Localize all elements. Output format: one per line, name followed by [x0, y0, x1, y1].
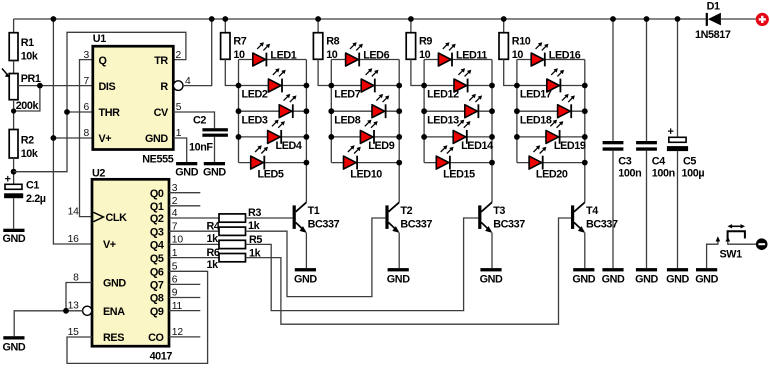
svg-text:GND: GND [387, 273, 410, 285]
svg-text:4017: 4017 [150, 350, 173, 362]
svg-text:Q7: Q7 [150, 280, 164, 292]
svg-text:R6: R6 [207, 247, 220, 259]
wire LED row 1 group 2 [331, 59, 399, 61]
wire Q2 to R3 [169, 217, 219, 219]
capacitor C1 [4, 174, 46, 229]
node left rail junction row 4 g3 [421, 134, 427, 140]
svg-text:200k: 200k [16, 100, 40, 112]
wire U2 GND pin 8 down [66, 283, 92, 311]
resistor R5 [219, 240, 246, 248]
svg-text:LED12: LED12 [427, 89, 459, 101]
wire right ladder rail group 1 [305, 60, 307, 203]
svg-text:C2: C2 [193, 114, 206, 126]
svg-text:V+: V+ [103, 239, 116, 251]
wire C5 to ground [677, 151, 679, 268]
wire Q output to CLK [80, 60, 93, 217]
led LED3 [242, 94, 297, 127]
wire PR1 to R2 [13, 100, 15, 130]
svg-text:8: 8 [83, 128, 89, 139]
svg-text:CV: CV [154, 107, 169, 119]
svg-text:PR1: PR1 [21, 73, 41, 85]
svg-text:BC337: BC337 [400, 219, 432, 231]
svg-text:BC337: BC337 [308, 219, 340, 231]
wire LED row 1 group 4 [517, 59, 585, 61]
svg-text:2.2µ: 2.2µ [26, 193, 46, 205]
svg-text:GND: GND [103, 278, 126, 290]
led LED4 [268, 120, 302, 153]
svg-text:10nF: 10nF [189, 141, 213, 153]
wire left ladder rail group 3 [423, 60, 425, 163]
wire left ladder rail group 1 [238, 60, 240, 163]
node right rail junction row 2 g3 [489, 83, 495, 89]
wire LED row 5 group 2 [331, 162, 399, 164]
svg-text:16: 16 [68, 234, 80, 245]
resistor R9 [406, 33, 415, 60]
node left rail junction row 4 g1 [236, 134, 242, 140]
svg-text:ENA: ENA [103, 306, 125, 318]
wire R4 to T2 base [246, 218, 386, 297]
svg-text:R9: R9 [419, 35, 432, 47]
wire TR loop to timing node [14, 32, 186, 171]
svg-text:Q2: Q2 [150, 213, 164, 225]
ground GND under SW1 [695, 268, 718, 285]
wire U1 GND pin to ground [173, 138, 186, 162]
svg-text:10k: 10k [21, 148, 39, 160]
IC U1 NE555 timer [83, 33, 191, 165]
svg-text:GND: GND [480, 273, 503, 285]
wire Q5 to R6 [169, 257, 219, 259]
node right rail junction row 2 g2 [396, 83, 402, 89]
wire R5 to T3 base [246, 218, 479, 311]
svg-text:1k: 1k [248, 220, 261, 232]
led LED14 [453, 120, 493, 153]
svg-text:RES: RES [103, 332, 124, 344]
U2 enable bubble pin 13 [83, 306, 92, 315]
svg-text:NE555: NE555 [142, 153, 173, 165]
svg-text:V+: V+ [99, 133, 112, 145]
svg-text:LED20: LED20 [536, 169, 568, 181]
node rail junction R8 [315, 16, 321, 22]
resistor R7 [221, 33, 230, 60]
node right rail junction row 3 g1 [304, 108, 310, 114]
led LED11 [438, 42, 487, 66]
svg-text:8: 8 [73, 272, 79, 283]
node left rail junction row 2 g3 [421, 83, 427, 89]
svg-text:GND: GND [3, 342, 26, 354]
svg-text:3: 3 [83, 50, 89, 61]
svg-text:LED13: LED13 [427, 114, 459, 126]
svg-text:LED18: LED18 [520, 114, 552, 126]
svg-text:LED16: LED16 [549, 50, 581, 62]
resistor R10 [499, 33, 508, 60]
svg-text:LED19: LED19 [554, 140, 586, 152]
led LED2 [242, 68, 286, 101]
svg-text:LED6: LED6 [363, 50, 389, 62]
svg-text:7: 7 [83, 76, 89, 87]
node right rail junction row 3 g3 [489, 108, 495, 114]
node rail junction R10 [501, 16, 507, 22]
svg-text:LED7: LED7 [334, 89, 360, 101]
led LED10 [344, 145, 383, 180]
svg-text:R3: R3 [248, 207, 261, 219]
wire LED row 2 group 1 [239, 85, 307, 87]
resistor R6 [219, 254, 246, 262]
svg-text:GND: GND [294, 273, 317, 285]
svg-text:R2: R2 [21, 135, 34, 147]
wire Q4 to R5 [169, 243, 219, 245]
wire T1 emitter to ground [305, 233, 307, 269]
svg-text:C5: C5 [683, 155, 696, 167]
wire LED row 3 group 4 [517, 110, 585, 112]
svg-text:100µ: 100µ [682, 167, 705, 179]
svg-text:T3: T3 [493, 205, 505, 217]
svg-text:6: 6 [83, 102, 89, 113]
wire R2 to C1 [13, 158, 15, 184]
wire LED row 3 group 1 [239, 110, 307, 112]
svg-text:13: 13 [68, 301, 80, 312]
wire Q1 stub [169, 205, 200, 207]
wire R6 to T4 base [246, 218, 572, 324]
node left rail junction row 3 g3 [421, 108, 427, 114]
node rail junction R7 [222, 16, 228, 22]
svg-text:Q1: Q1 [150, 201, 164, 213]
node left rail junction row 2 g2 [328, 83, 334, 89]
resistor R3 [219, 214, 246, 222]
svg-text:LED4: LED4 [276, 140, 302, 152]
svg-text:BC337: BC337 [493, 219, 525, 231]
svg-text:LED1: LED1 [270, 50, 296, 62]
node right rail junction row 4 g2 [396, 134, 402, 140]
svg-text:SW1: SW1 [720, 248, 743, 260]
wire right ladder rail group 2 [398, 60, 400, 203]
wire rail to R1 [13, 19, 15, 33]
wire LED row 1 group 3 [424, 59, 492, 61]
svg-text:GND: GND [203, 167, 226, 179]
wire rail to C5 [677, 19, 679, 137]
svg-text:10k: 10k [21, 51, 39, 63]
wire LED row 5 group 1 [239, 162, 307, 164]
svg-text:+: + [668, 126, 674, 138]
wire LED row 3 group 3 [424, 110, 492, 112]
node right rail junction row 5 g4 [582, 160, 588, 166]
wire left ladder rail group 2 [330, 60, 332, 163]
node rail junction V+ [51, 16, 57, 22]
svg-text:T1: T1 [308, 205, 320, 217]
svg-text:Q4: Q4 [150, 240, 164, 252]
wire LED row 4 group 2 [331, 136, 399, 138]
wire LED row 2 group 2 [331, 85, 399, 87]
ground GND at T2 emitter [387, 268, 410, 285]
ground GND at U1 pin 1 [175, 162, 198, 179]
capacitor C4 [636, 141, 657, 151]
svg-text:CLK: CLK [106, 212, 128, 224]
svg-text:R8: R8 [326, 35, 339, 47]
node THR junction [64, 109, 70, 115]
led LED16 [531, 42, 581, 66]
resistor R8 [313, 33, 322, 60]
led LED18 [520, 94, 575, 127]
led LED20 [529, 145, 568, 180]
svg-text:1k: 1k [207, 233, 220, 245]
wire SW1 left contact [707, 241, 718, 269]
svg-text:LED17: LED17 [520, 89, 552, 101]
svg-text:TR: TR [154, 55, 168, 67]
svg-text:LED10: LED10 [350, 169, 382, 181]
ground GND at T3 emitter [480, 268, 503, 285]
node left rail junction row 3 g4 [514, 108, 520, 114]
wire Q9 stub [169, 310, 200, 312]
ground GND under C4 [635, 268, 658, 285]
svg-text:Q5: Q5 [150, 253, 164, 265]
wire SW1 right contact to minus terminal [728, 241, 757, 245]
led LED6 [346, 42, 390, 66]
led LED9 [360, 120, 394, 153]
node rail junction R9 [408, 16, 414, 22]
svg-text:DIS: DIS [99, 81, 116, 93]
wire R9 to LED ladder [411, 59, 424, 85]
svg-text:T2: T2 [400, 205, 412, 217]
svg-text:LED2: LED2 [242, 89, 268, 101]
svg-text:U2: U2 [92, 168, 105, 180]
wire LED row 3 group 2 [331, 110, 399, 112]
resistor R1 [9, 33, 18, 61]
node right rail junction row 3 g2 [396, 108, 402, 114]
wire V+ branch to U2 pin 16 [53, 19, 92, 244]
svg-text:R4: R4 [207, 221, 220, 233]
node timing node [11, 169, 17, 175]
svg-text:LED5: LED5 [258, 169, 284, 181]
wire rail to R10 [503, 19, 505, 33]
svg-text:Q3: Q3 [150, 226, 164, 238]
wire rail to R7 [224, 19, 226, 33]
svg-text:CO: CO [148, 332, 163, 344]
wire wiper tie-down [14, 86, 40, 111]
wire wiper to DIS pin 7 [18, 85, 93, 87]
node right rail junction row 2 g1 [304, 83, 310, 89]
wire R10 to LED ladder [504, 59, 517, 85]
wire LED row 2 group 3 [424, 85, 492, 87]
wire R8 to LED ladder [318, 59, 331, 85]
svg-text:LED3: LED3 [242, 114, 268, 126]
node left rail junction row 4 g2 [328, 134, 334, 140]
wire Q8 stub [169, 297, 200, 299]
wire LED row 5 group 3 [424, 162, 492, 164]
led LED1 [253, 42, 297, 66]
wire rail to R8 [317, 19, 319, 33]
wire C3 to ground [612, 151, 614, 268]
svg-text:GND: GND [635, 273, 658, 285]
node left rail junction row 2 g4 [514, 83, 520, 89]
svg-text:Q: Q [99, 55, 107, 67]
wire R7 to LED ladder [225, 59, 238, 85]
svg-text:GND: GND [572, 273, 595, 285]
svg-text:1N5817: 1N5817 [695, 29, 731, 41]
svg-text:15: 15 [68, 327, 80, 338]
minus supply terminal [756, 238, 768, 250]
wire T2 emitter to ground [398, 233, 400, 269]
svg-text:D1: D1 [707, 0, 720, 12]
svg-text:U1: U1 [93, 33, 106, 45]
node ENA/GND junction [63, 308, 69, 314]
transistor T4 BC337 [571, 202, 618, 233]
resistor R4 [219, 227, 246, 235]
resistor R2 [9, 130, 18, 159]
svg-text:THR: THR [99, 107, 121, 119]
wire LED row 4 group 4 [517, 136, 585, 138]
wire Q3 to R4 [169, 230, 219, 232]
U1 reset bubble pin 4 [173, 81, 183, 91]
node right rail junction row 4 g1 [304, 134, 310, 140]
svg-text:Q0: Q0 [150, 188, 164, 200]
node right rail junction row 5 g3 [489, 160, 495, 166]
IC U2 4017 decade counter [83, 168, 173, 363]
wire T3 emitter to ground [491, 233, 493, 269]
svg-text:LED8: LED8 [334, 114, 360, 126]
wire right ladder rail group 3 [491, 60, 493, 203]
svg-text:C1: C1 [26, 179, 39, 191]
svg-text:1k: 1k [207, 259, 220, 271]
wire CV to C2 [173, 112, 214, 128]
led LED19 [546, 120, 586, 153]
wire Q0 stub [169, 192, 200, 194]
svg-text:GND: GND [695, 273, 718, 285]
U2 clock input triangle [93, 212, 103, 221]
wire top supply rail [14, 18, 706, 20]
wire CO stub [169, 336, 200, 338]
PR1 wiper arrow [2, 69, 7, 75]
capacitor C3 [603, 141, 624, 151]
svg-text:R7: R7 [233, 35, 246, 47]
wire LED row 4 group 3 [424, 136, 492, 138]
node left rail junction row 3 g2 [328, 108, 334, 114]
led LED17 [520, 68, 564, 101]
wire left ladder rail group 4 [516, 60, 518, 163]
svg-text:LED15: LED15 [443, 169, 475, 181]
node left rail junction row 4 g4 [514, 134, 520, 140]
node left rail junction row 3 g1 [236, 108, 242, 114]
svg-text:T4: T4 [586, 205, 598, 217]
svg-text:GND: GND [175, 167, 198, 179]
svg-text:GND: GND [145, 133, 168, 145]
svg-text:LED14: LED14 [461, 140, 493, 152]
svg-text:C4: C4 [652, 155, 665, 167]
wire C4 to ground [646, 151, 648, 268]
wire rail to R9 [410, 19, 412, 33]
node right rail junction row 4 g3 [489, 134, 495, 140]
wire Q7 stub [169, 283, 200, 285]
wire ENA to ground [14, 311, 83, 336]
wire V+ to U1 pin 8 [53, 137, 92, 139]
svg-text:R1: R1 [21, 37, 34, 49]
ground GND under C1 [3, 229, 26, 246]
wire R1 to PR1 [13, 61, 15, 74]
svg-text:GND: GND [666, 273, 689, 285]
svg-text:GND: GND [3, 233, 26, 245]
wire LED row 1 group 1 [239, 59, 307, 61]
svg-text:LED11: LED11 [456, 50, 487, 62]
capacitor C5 [667, 126, 688, 151]
wire THR branch [67, 111, 93, 113]
svg-text:100n: 100n [652, 167, 675, 179]
diode D1 1N5817 [695, 0, 731, 41]
svg-text:Q8: Q8 [150, 293, 164, 305]
node rail junction reset [209, 16, 215, 22]
wire D1 to plus terminal [721, 18, 756, 20]
node rail junction C3 [610, 16, 616, 22]
node pot bottom junction [11, 108, 16, 113]
wire right ladder rail group 4 [584, 60, 586, 203]
ground GND at T4 emitter [572, 268, 595, 285]
transistor T2 BC337 [385, 202, 432, 233]
wire R3 to T1 base [246, 217, 293, 219]
node right rail junction row 5 g1 [304, 160, 310, 166]
led LED15 [436, 145, 475, 180]
node right rail junction row 3 g4 [582, 108, 588, 114]
svg-text:R10: R10 [512, 35, 531, 47]
svg-text:14: 14 [68, 206, 80, 217]
svg-text:R: R [160, 81, 168, 93]
transistor T1 BC337 [293, 202, 340, 233]
node right rail junction row 2 g4 [582, 83, 588, 89]
wire rail to C3 [612, 19, 614, 141]
ground GND under C2 [203, 162, 226, 179]
led LED5 [251, 145, 284, 180]
wire reset pin 4 to rail [183, 19, 212, 86]
ground GND at U2 pin 13 [3, 336, 26, 354]
wire LED row 2 group 4 [517, 85, 585, 87]
node wiper junction [37, 83, 43, 89]
wire LED row 4 group 1 [239, 136, 307, 138]
ground GND under C3 [602, 268, 625, 285]
svg-text:C3: C3 [618, 155, 631, 167]
led LED7 [334, 68, 378, 101]
ground GND at T1 emitter [294, 268, 317, 285]
capacitor C2 [189, 114, 228, 162]
switch SW1 [707, 224, 757, 268]
potentiometer PR1 [9, 74, 18, 100]
node right rail junction row 5 g2 [396, 160, 402, 166]
plus supply terminal [756, 13, 769, 26]
node rail junction C4 [644, 16, 650, 22]
svg-text:LED9: LED9 [368, 140, 394, 152]
transistor T3 BC337 [478, 202, 525, 233]
svg-text:2: 2 [176, 50, 182, 61]
led LED12 [427, 68, 471, 101]
wire Q6 to RES loop [67, 271, 208, 363]
led LED13 [427, 94, 482, 127]
led LED8 [334, 94, 389, 127]
svg-text:GND: GND [602, 273, 625, 285]
wire LED row 5 group 4 [517, 162, 585, 164]
svg-text:Q6: Q6 [150, 267, 164, 279]
ground GND under C5 [666, 268, 689, 285]
node left rail junction row 2 g1 [236, 83, 242, 89]
node right rail junction row 4 g4 [582, 134, 588, 140]
wire rail to C4 [646, 19, 648, 141]
svg-text:Q9: Q9 [150, 306, 164, 318]
svg-text:100n: 100n [618, 167, 641, 179]
wire T4 emitter to ground [584, 233, 586, 269]
node V+ junction [51, 135, 57, 141]
node rail junction C5 [675, 16, 681, 22]
